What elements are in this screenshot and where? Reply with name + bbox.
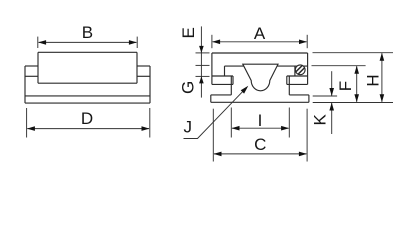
top edge (212, 52, 308, 54)
left wing bottom (212, 83, 233, 85)
right wing top (137, 65, 150, 67)
cover bottom edge (38, 82, 137, 84)
dimension K (313, 71, 393, 134)
base bottom edge (25, 102, 150, 104)
svg-text:K: K (310, 113, 329, 125)
right wing bottom (287, 83, 308, 85)
dimension I (231, 108, 289, 138)
left wing bottom (25, 75, 38, 77)
right groove horizontal (289, 94, 309, 96)
left groove wall (230, 76, 232, 95)
left groove horizontal (211, 94, 232, 96)
screw hatch (293, 63, 307, 77)
svg-text:J: J (184, 118, 193, 137)
right wing outer vertical (286, 76, 288, 84)
base left edge (24, 66, 26, 103)
svg-text:B: B (82, 23, 93, 42)
body left edge (211, 53, 213, 84)
left step vertical (224, 66, 226, 76)
right step vertical (294, 66, 296, 76)
svg-text:E: E (179, 27, 198, 38)
dimension C (213, 109, 307, 162)
body right edge (307, 53, 309, 84)
left wing top (212, 75, 233, 77)
funnel J (243, 64, 278, 91)
dimension D (27, 108, 150, 138)
base mid line (25, 95, 150, 97)
cover top edge (38, 51, 137, 53)
screw circle (295, 65, 305, 75)
svg-text:I: I (258, 111, 263, 130)
ledge line (225, 65, 308, 67)
svg-text:G: G (178, 81, 197, 94)
svg-text:D: D (81, 109, 93, 128)
right wing top (287, 75, 308, 77)
left wing outer vertical (232, 76, 234, 84)
svg-text:F: F (336, 81, 355, 91)
dimension H (313, 53, 394, 102)
dimension B (38, 37, 137, 48)
svg-text:H: H (364, 74, 383, 86)
base right edge (149, 66, 151, 103)
svg-text:C: C (254, 135, 266, 154)
svg-text:A: A (254, 24, 266, 43)
dimension E/G shared line (196, 26, 210, 97)
bottom edge extended right (211, 101, 309, 103)
left foot edge (210, 95, 212, 102)
right foot edge (308, 95, 310, 102)
dimension A (212, 35, 307, 48)
right groove wall (288, 76, 290, 95)
dimension F (312, 66, 366, 102)
cover left edge (37, 52, 39, 83)
cover right edge (136, 52, 138, 83)
right wing bottom (137, 75, 150, 77)
left wing top (25, 65, 38, 67)
leader J (184, 88, 247, 139)
